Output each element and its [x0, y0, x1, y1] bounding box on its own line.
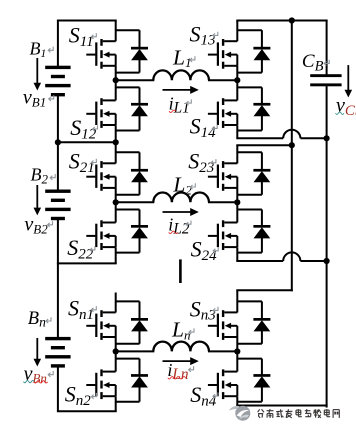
battery B1 [45, 66, 70, 97]
voltage arrow v_Cb [345, 65, 353, 97]
label S24 [191, 237, 219, 264]
mosfet S13 [208, 39, 237, 69]
wire inductor Ln to right leg [208, 350, 237, 352]
wire module 2 right trunk [236, 145, 238, 261]
wire battery Bn top lead [57, 293, 59, 338]
current arrow i_L2 [163, 208, 199, 216]
wire module n output top rail [236, 289, 292, 291]
voltage arrow v_B2 [34, 185, 42, 215]
mosfet S12 [86, 98, 115, 128]
label L2 [172, 173, 195, 198]
label S14 [190, 114, 218, 141]
mosfet Sn2 [86, 369, 115, 399]
wire module 2 left trunk [115, 142, 117, 263]
wire battery B2 top lead [57, 142, 59, 190]
wire S12 diode branch [116, 87, 140, 104]
watermark logo and text [230, 406, 342, 421]
label S22 [67, 235, 95, 262]
wire S14 diode anode lead [237, 115, 262, 130]
junction module 2 top rail to inner bus [289, 142, 295, 148]
diode across Sn4 [253, 374, 270, 387]
wire S24 diode anode lead [237, 237, 262, 252]
label v_B1 [23, 86, 54, 109]
wire inductor L2 to right leg [208, 201, 237, 203]
ellipsis continuation mark [179, 259, 182, 283]
wire phase node to inductor L2 [116, 201, 155, 203]
junction right phase module n [234, 348, 240, 354]
label Sn1 [68, 296, 96, 323]
wire battery B1 top lead [57, 21, 59, 67]
label L1 [172, 45, 195, 70]
label B1 [30, 38, 54, 60]
wire outer bus lower [326, 86, 328, 408]
mosfet Sn3 [208, 310, 237, 340]
diode across S22 [131, 225, 148, 238]
junction right phase module 1 [234, 77, 240, 83]
label Bn [28, 309, 51, 330]
wire Sn4 diode branch [237, 359, 262, 376]
diode across S13 [253, 47, 270, 60]
current arrow i_L1 [163, 86, 199, 94]
diode across S11 [131, 47, 148, 60]
mosfet S22 [86, 220, 115, 250]
label S13 [190, 21, 218, 48]
wire battery B2 bottom lead [57, 220, 59, 264]
diode across S14 [253, 103, 270, 116]
label B2 [31, 164, 56, 186]
mosfet S14 [208, 98, 237, 128]
wire top bus (S13 drain rail to capacitor bus) [236, 20, 327, 22]
label S12 [70, 115, 97, 142]
wire S21 diode branch [116, 152, 140, 170]
label i_Ln [167, 360, 193, 383]
label S23 [188, 149, 216, 176]
junction module 1 bottom rail to outer bus [324, 135, 330, 141]
wire B1 positive rail [57, 20, 117, 22]
diode across Sn2 [131, 374, 148, 387]
wire hop over inner bus module 1 [283, 130, 300, 139]
wire S22 diode anode lead [116, 237, 140, 252]
wire Sn1 diode branch [116, 301, 140, 319]
wire phase node to inductor L1 [116, 79, 155, 81]
voltage arrow v_B1 [34, 58, 42, 91]
mosfet S11 [86, 39, 115, 69]
capacitor CB [310, 74, 341, 86]
mosfet S23 [208, 161, 237, 191]
junction S12-S21 node [113, 139, 119, 145]
wire inductor L1 to right leg [208, 79, 237, 81]
wire hop over inner bus module 2 [283, 252, 300, 261]
diode across S23 [253, 169, 270, 182]
label Sn2 [65, 382, 97, 409]
battery Bn [45, 337, 70, 368]
wire battery chain B2 to Bn [57, 263, 59, 292]
wire module 2 output top rail [236, 144, 291, 146]
wire S23 diode branch [237, 152, 262, 170]
wire S14 diode branch [237, 87, 262, 104]
wire S12 diode anode lead [116, 115, 140, 130]
wire module n right trunk [236, 290, 238, 405]
label v_Bn [24, 363, 54, 386]
junction left phase module 2 [113, 199, 119, 205]
wire battery Bn bottom lead [57, 367, 59, 411]
junction left phase module 1 [113, 77, 119, 83]
wire S21 diode anode lead [116, 181, 140, 194]
mosfet S24 [208, 220, 237, 250]
battery B2 [45, 190, 70, 221]
wire module n output bottom rail [236, 405, 327, 407]
label S21 [69, 148, 97, 175]
wire Sn2 diode anode lead [116, 387, 140, 402]
label C_B [302, 51, 329, 74]
wire module 1 left bottom rail [57, 141, 117, 143]
diode across S21 [131, 169, 148, 182]
diode across Sn3 [253, 318, 270, 331]
label i_L2 [168, 215, 191, 238]
junction module 2 bottom rail to outer bus [324, 258, 330, 264]
inductor Ln [153, 342, 209, 352]
wire module 1 left trunk [115, 21, 117, 143]
wire S24 diode branch [237, 210, 262, 227]
inductor L1 [153, 70, 209, 80]
mosfet S21 [86, 161, 115, 191]
junction inner bus at top wire [289, 17, 295, 23]
inductor L2 [153, 193, 209, 203]
label v_B2 [24, 214, 52, 237]
voltage arrow v_Bn [34, 338, 42, 367]
wire S23 diode anode lead [237, 181, 262, 194]
wire Sn1 diode anode lead [116, 330, 140, 343]
label Ln [171, 318, 194, 343]
diode across S24 [253, 225, 270, 238]
wire S13 diode anode lead [237, 59, 262, 72]
current arrow i_Ln [163, 357, 199, 365]
wire battery B1 bottom lead [57, 96, 59, 142]
wire inner bus [291, 21, 293, 292]
diode across S12 [131, 103, 148, 116]
label Sn4 [190, 382, 218, 409]
wire module 2 output bottom rail [236, 260, 326, 262]
junction B1-B2 node [55, 139, 61, 145]
wire S11 diode branch [116, 30, 140, 48]
wire S13 diode branch [237, 30, 262, 48]
junction left phase module n [113, 348, 119, 354]
mosfet Sn1 [86, 310, 115, 340]
wire module 1 output bottom rail [236, 137, 326, 139]
label v_Cb [336, 95, 356, 119]
wire Sn3 diode anode lead [237, 330, 262, 343]
wire module n left trunk [115, 293, 117, 412]
wire module n left bottom rail [57, 410, 117, 412]
label Sn3 [190, 296, 218, 323]
wire Sn2 diode branch [116, 359, 140, 376]
label S11 [69, 23, 97, 50]
label i_L1 [169, 94, 192, 117]
wire outer bus upper [326, 20, 328, 75]
wire S22 diode branch [116, 210, 140, 227]
wire Sn4 diode anode lead [237, 387, 262, 402]
wire S11 diode anode lead [116, 59, 140, 72]
wire Sn3 diode branch [237, 301, 262, 319]
wire module 2 left bottom rail [57, 262, 117, 264]
mosfet Sn4 [208, 369, 237, 399]
junction right phase module 2 [234, 199, 240, 205]
diode across Sn1 [131, 318, 148, 331]
wire phase node to inductor Ln [116, 350, 155, 352]
wire module 1 right trunk [236, 21, 238, 139]
